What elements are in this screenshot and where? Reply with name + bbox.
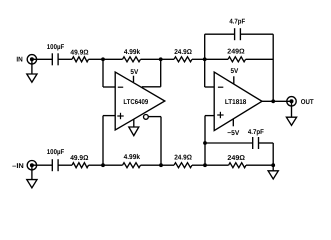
svg-text:49.9Ω: 49.9Ω <box>70 155 89 162</box>
svg-text:–IN: –IN <box>12 163 24 170</box>
svg-text:4.7pF: 4.7pF <box>248 129 265 136</box>
svg-text:4.7pF: 4.7pF <box>229 18 245 25</box>
svg-text:OUT: OUT <box>301 99 315 106</box>
svg-text:249Ω: 249Ω <box>227 48 245 55</box>
svg-text:24.9Ω: 24.9Ω <box>174 154 192 161</box>
svg-text:5V: 5V <box>231 68 239 75</box>
svg-text:49.9Ω: 49.9Ω <box>70 49 89 56</box>
svg-text:24.9Ω: 24.9Ω <box>174 49 192 56</box>
svg-text:4.99k: 4.99k <box>124 153 140 161</box>
svg-text:IN: IN <box>16 56 22 63</box>
svg-text:5V: 5V <box>130 69 138 76</box>
svg-text:4.99k: 4.99k <box>124 48 140 56</box>
svg-text:100µF: 100µF <box>47 149 65 156</box>
svg-text:100µF: 100µF <box>47 44 65 51</box>
svg-text:LT1818: LT1818 <box>225 99 247 106</box>
svg-text:249Ω: 249Ω <box>227 155 245 162</box>
svg-text:LTC6409: LTC6409 <box>123 99 148 106</box>
svg-text:−5V: −5V <box>227 130 239 137</box>
